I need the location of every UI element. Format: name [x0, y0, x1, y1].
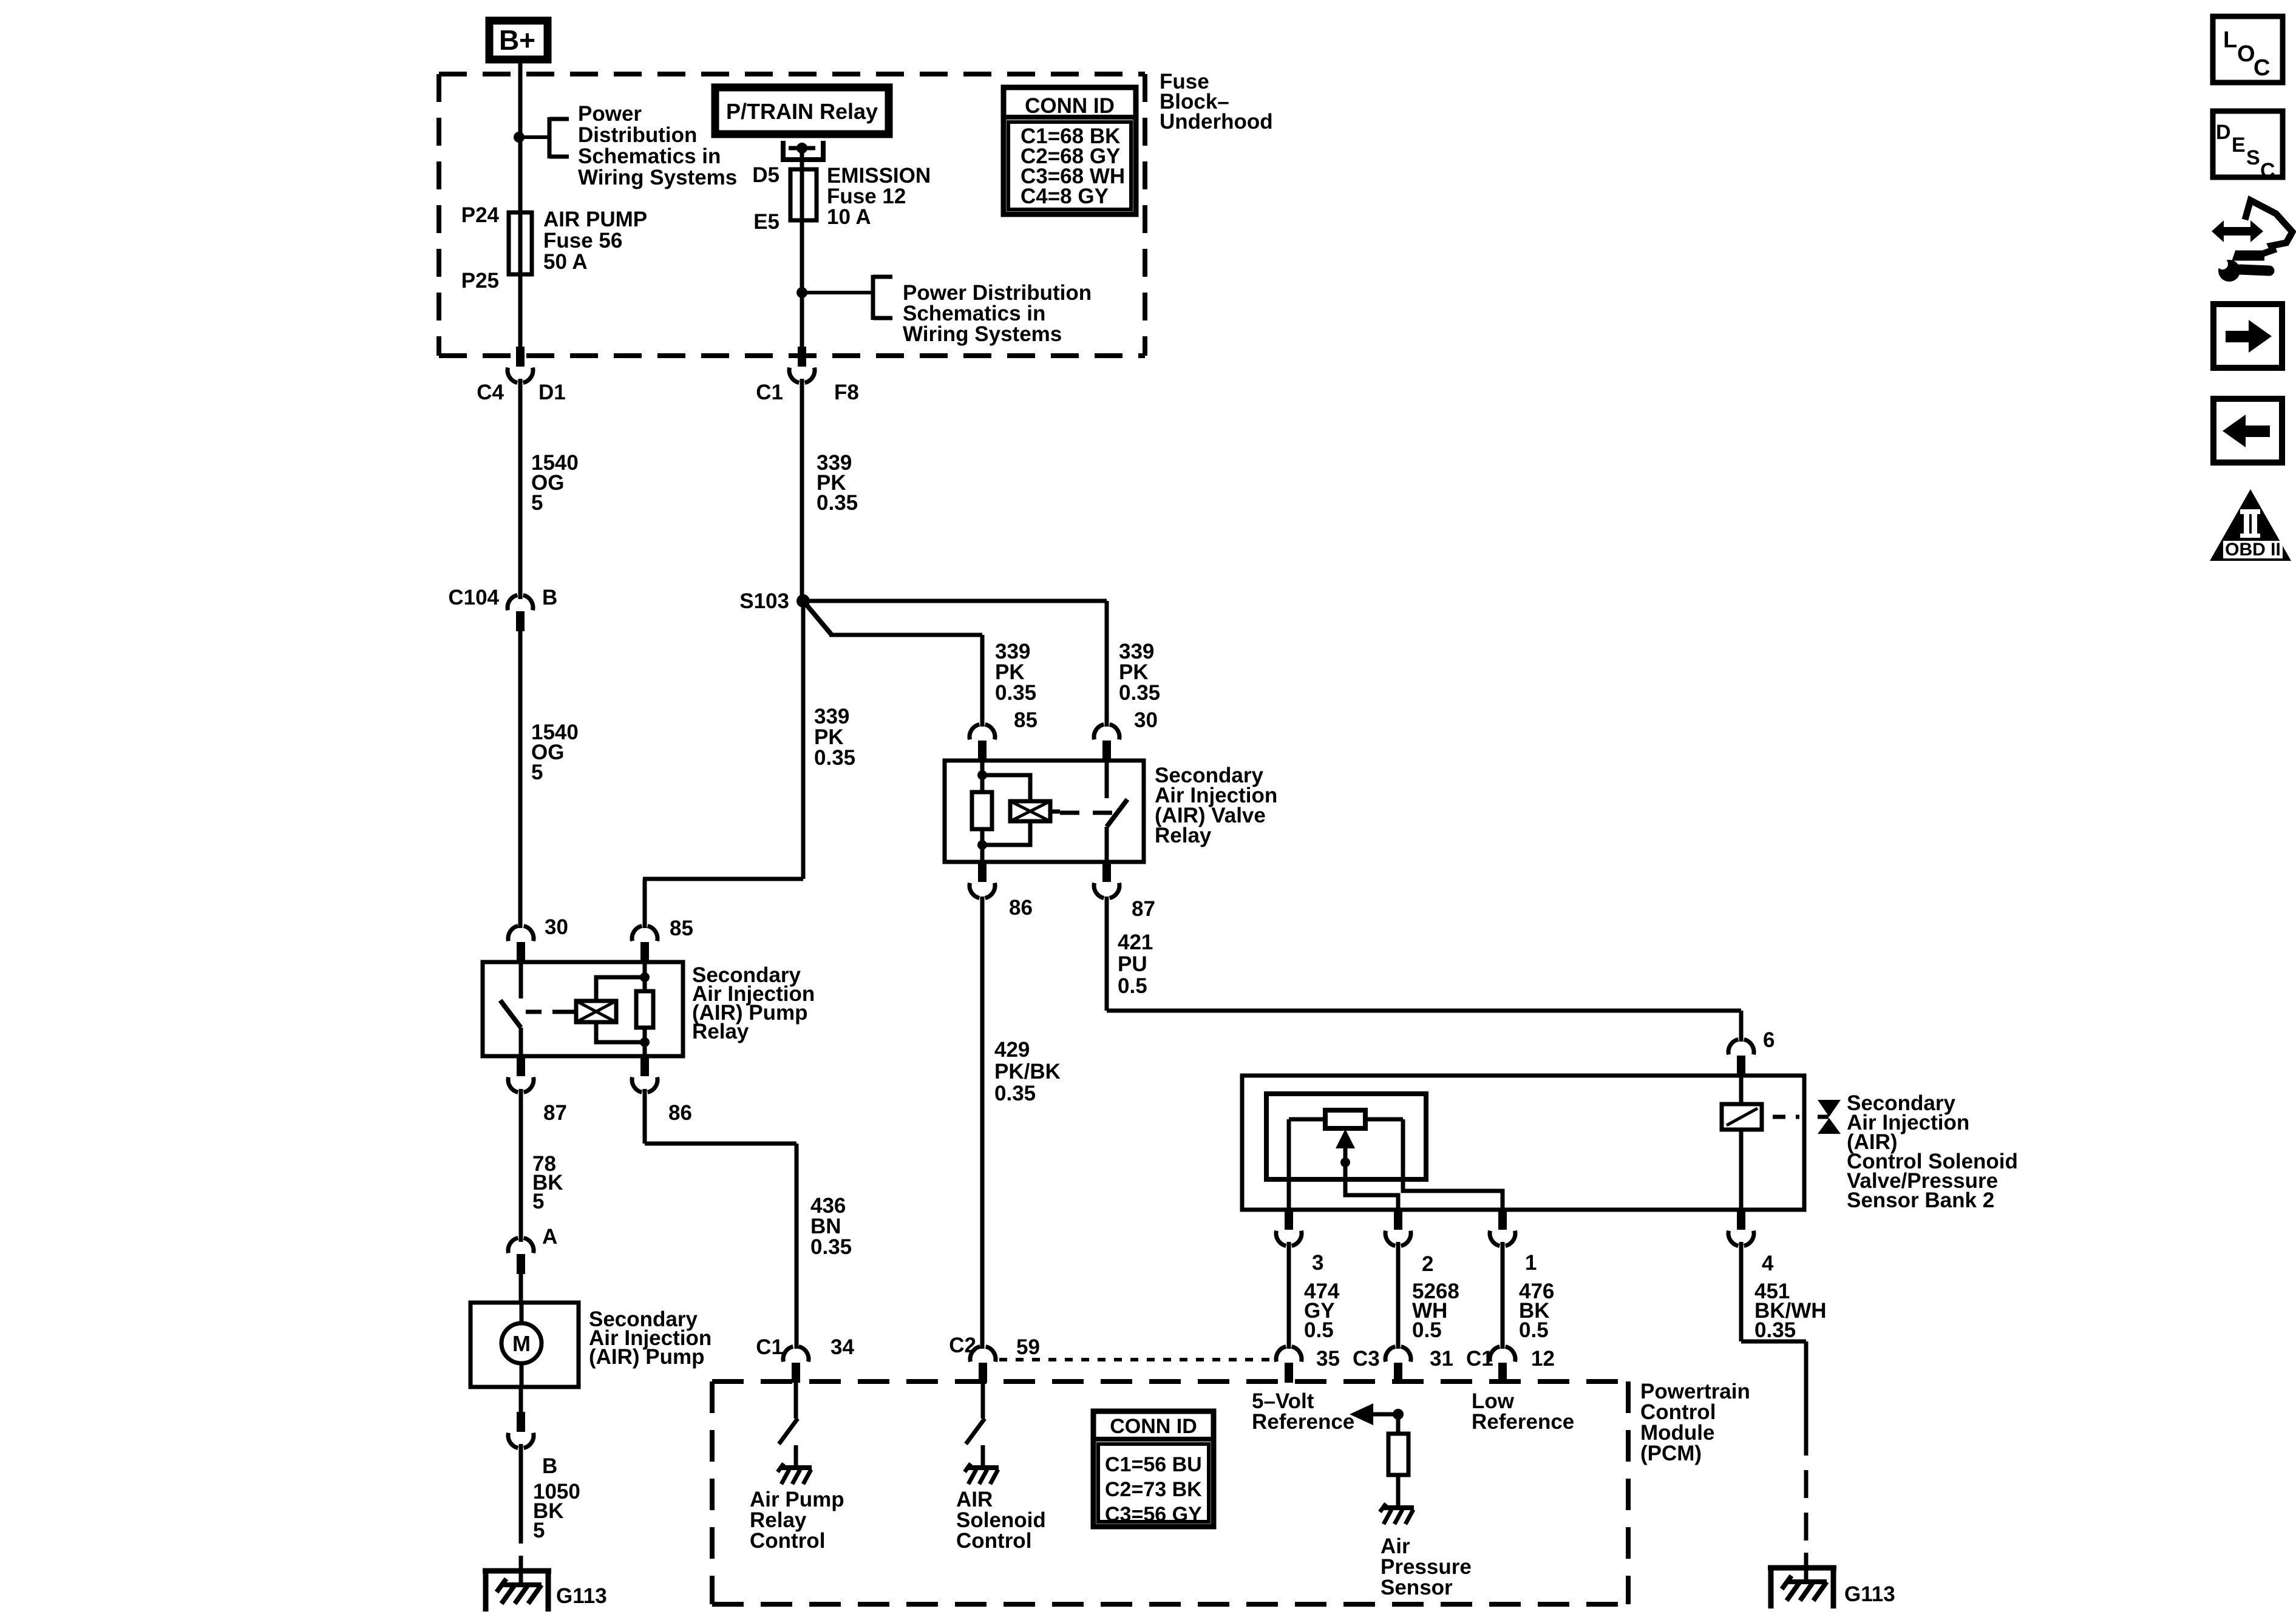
svg-text:D1: D1 — [538, 381, 566, 404]
svg-text:30: 30 — [545, 915, 568, 939]
svg-text:P25: P25 — [461, 269, 499, 293]
svg-text:5: 5 — [533, 1519, 545, 1542]
svg-text:85: 85 — [1014, 708, 1038, 732]
svg-text:5: 5 — [532, 1190, 544, 1213]
svg-text:C1: C1 — [756, 381, 783, 404]
svg-text:87: 87 — [543, 1101, 567, 1125]
svg-text:34: 34 — [830, 1335, 854, 1359]
svg-text:85: 85 — [670, 917, 693, 940]
svg-text:421: 421 — [1118, 931, 1153, 954]
svg-text:O: O — [2237, 41, 2255, 67]
svg-text:429: 429 — [994, 1038, 1030, 1062]
svg-text:C3: C3 — [1353, 1347, 1380, 1371]
svg-text:Control: Control — [956, 1529, 1031, 1553]
svg-text:Fuse 56: Fuse 56 — [543, 229, 622, 253]
svg-text:B: B — [542, 1454, 557, 1478]
svg-text:G113: G113 — [1844, 1582, 1895, 1606]
svg-text:A: A — [542, 1225, 557, 1249]
svg-text:PK/BK: PK/BK — [994, 1060, 1061, 1083]
svg-text:E5: E5 — [753, 210, 779, 234]
svg-text:3: 3 — [1312, 1251, 1323, 1275]
svg-text:E: E — [2232, 134, 2246, 157]
svg-text:12: 12 — [1531, 1347, 1555, 1371]
svg-text:87: 87 — [1132, 897, 1155, 921]
svg-text:50 A: 50 A — [543, 250, 588, 274]
svg-text:D5: D5 — [752, 163, 779, 187]
svg-text:C1=56 BU: C1=56 BU — [1105, 1453, 1202, 1476]
svg-text:5: 5 — [531, 761, 543, 784]
svg-text:S: S — [2246, 146, 2260, 169]
svg-text:C: C — [2260, 159, 2275, 182]
svg-text:Reference: Reference — [1252, 1410, 1354, 1434]
svg-text:C4=8 GY: C4=8 GY — [1021, 185, 1109, 208]
svg-text:0.35: 0.35 — [817, 491, 858, 515]
svg-text:0.35: 0.35 — [1119, 681, 1160, 705]
svg-text:(PCM): (PCM) — [1640, 1442, 1702, 1465]
svg-text:Control: Control — [750, 1529, 825, 1553]
svg-text:C3=56 GY: C3=56 GY — [1105, 1503, 1202, 1526]
svg-text:CONN ID: CONN ID — [1110, 1415, 1197, 1438]
svg-text:Relay: Relay — [692, 1020, 749, 1043]
svg-text:PU: PU — [1118, 952, 1147, 976]
svg-text:Relay: Relay — [1155, 824, 1212, 847]
svg-text:G113: G113 — [556, 1584, 607, 1608]
svg-text:OBD II: OBD II — [2225, 540, 2281, 560]
svg-text:Wiring Systems: Wiring Systems — [578, 166, 737, 189]
svg-text:0.35: 0.35 — [810, 1235, 852, 1259]
svg-text:P/TRAIN Relay: P/TRAIN Relay — [726, 99, 878, 124]
svg-text:F8: F8 — [834, 381, 859, 404]
svg-text:C1: C1 — [756, 1335, 783, 1359]
svg-text:0.5: 0.5 — [1304, 1318, 1334, 1342]
svg-text:B+: B+ — [499, 24, 535, 56]
svg-text:0.5: 0.5 — [1412, 1318, 1442, 1342]
svg-text:L: L — [2223, 27, 2237, 53]
svg-text:M: M — [512, 1331, 531, 1356]
svg-text:6: 6 — [1763, 1028, 1775, 1052]
svg-text:0.35: 0.35 — [814, 746, 855, 770]
svg-text:Sensor: Sensor — [1381, 1576, 1453, 1599]
svg-text:10 A: 10 A — [827, 205, 871, 229]
svg-text:Sensor Bank 2: Sensor Bank 2 — [1847, 1188, 1994, 1212]
svg-text:0.35: 0.35 — [994, 1082, 1036, 1105]
svg-text:5: 5 — [531, 491, 543, 515]
svg-text:AIR PUMP: AIR PUMP — [543, 208, 647, 231]
svg-text:S103: S103 — [739, 589, 789, 613]
svg-text:Distribution: Distribution — [578, 123, 697, 147]
svg-text:0.5: 0.5 — [1519, 1318, 1549, 1342]
svg-text:0.35: 0.35 — [995, 681, 1036, 705]
svg-text:35: 35 — [1316, 1347, 1340, 1371]
svg-text:0.35: 0.35 — [1754, 1318, 1796, 1342]
svg-text:86: 86 — [668, 1101, 692, 1125]
svg-text:C4: C4 — [477, 381, 504, 404]
svg-text:C: C — [2254, 55, 2270, 81]
svg-text:86: 86 — [1009, 896, 1033, 920]
svg-text:30: 30 — [1134, 708, 1158, 732]
svg-text:0.5: 0.5 — [1118, 974, 1147, 998]
svg-text:4: 4 — [1762, 1252, 1774, 1275]
svg-text:31: 31 — [1430, 1347, 1453, 1371]
svg-text:B: B — [542, 586, 557, 609]
svg-text:Power: Power — [578, 102, 642, 126]
svg-text:(AIR) Pump: (AIR) Pump — [589, 1345, 705, 1369]
svg-text:C2=73 BK: C2=73 BK — [1105, 1478, 1202, 1501]
svg-text:D: D — [2216, 121, 2231, 144]
svg-text:C2: C2 — [949, 1334, 976, 1357]
svg-text:C104: C104 — [448, 586, 499, 609]
svg-text:Schematics in: Schematics in — [578, 144, 721, 168]
svg-text:2: 2 — [1422, 1252, 1433, 1276]
svg-text:Underhood: Underhood — [1160, 110, 1273, 134]
svg-text:59: 59 — [1016, 1335, 1040, 1359]
svg-text:Wiring Systems: Wiring Systems — [903, 322, 1062, 346]
svg-text:CONN ID: CONN ID — [1025, 94, 1115, 118]
svg-text:1: 1 — [1525, 1251, 1537, 1275]
svg-text:Reference: Reference — [1472, 1410, 1574, 1434]
svg-text:P24: P24 — [461, 203, 500, 227]
